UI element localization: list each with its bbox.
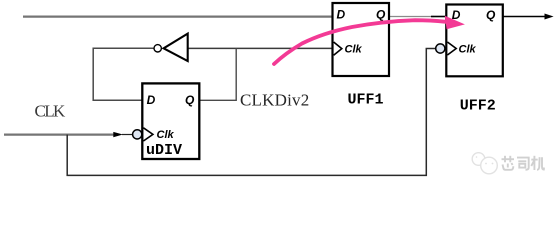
label UFF2 (460, 97, 496, 114)
wire: CLK branch down, along bottom, up to UFF2 clock (67, 49, 435, 176)
svg-text:Clk: Clk (345, 43, 363, 55)
wire: UFF2 Q output (503, 16, 545, 18)
svg-text:CLKDiv2: CLKDiv2 (240, 90, 309, 109)
arrowhead on CLK wire (113, 132, 133, 137)
wire: UFF1 Q to UFF2 D (389, 16, 446, 18)
flip-flop UFF1 (333, 3, 390, 76)
logo text 芯司机 (drawn strokes) (502, 156, 545, 170)
label CLK (35, 102, 67, 121)
wire: CLK input (gray) (4, 134, 114, 136)
wire: inverter input to UFF1 clock (188, 47, 333, 49)
svg-text:Clk: Clk (157, 129, 175, 141)
svg-text:Q: Q (185, 93, 195, 107)
svg-text:Q: Q (376, 8, 386, 22)
arrowhead on UFF2 Q output (545, 14, 554, 20)
svg-text:UFF2: UFF2 (460, 97, 496, 114)
wire: uDIV Q output up to inverter input (node CLKDiv2) (199, 48, 236, 100)
svg-text:CLK: CLK (35, 102, 67, 121)
svg-text:UFF1: UFF1 (348, 91, 384, 108)
flip-flop uDIV (133, 83, 200, 159)
annotation: pink highlight arrow from CLKDiv2 node to UFF2 D (274, 16, 465, 64)
inverter U1 (154, 34, 188, 61)
svg-text:Clk: Clk (459, 43, 477, 55)
label CLKDiv2 (node) (240, 90, 309, 109)
svg-text:D: D (337, 8, 346, 22)
wire: inverter output feedback to uDIV D input (93, 48, 154, 100)
wire: D input of UFF1 (top long gray wire) (23, 16, 333, 18)
logo (watermark) (472, 153, 497, 174)
svg-text:Q: Q (486, 8, 496, 22)
svg-text:uDIV: uDIV (146, 142, 182, 159)
svg-text:D: D (147, 93, 156, 107)
flip-flop UFF2 (436, 5, 503, 77)
label UFF1 (348, 91, 384, 108)
